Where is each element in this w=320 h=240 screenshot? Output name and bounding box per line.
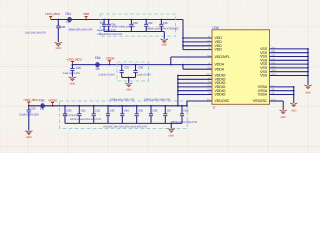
- svg-text:100nF,±10%,X5R,X7R: 100nF,±10%,X5R,X7R: [144, 97, 170, 101]
- svg-text:C42: C42: [95, 109, 100, 113]
- value label C37: [99, 74, 116, 77]
- wire VDDIO pin stub y94.5: [178, 94, 212, 96]
- svg-text:PlaceAtP5%-50%,X7R: PlaceAtP5%-50%,X7R: [98, 33, 123, 36]
- svg-text:C31: C31: [100, 21, 105, 25]
- svg-text:C47: C47: [167, 109, 172, 113]
- svg-text:GND: GND: [162, 44, 168, 47]
- capacitor C42: [92, 105, 101, 124]
- ground under box2: [125, 83, 132, 91]
- svg-text:±A½D5-50%,X7R: ±A½D5-50%,X7R: [97, 29, 116, 32]
- svg-text:GND: GND: [169, 134, 175, 137]
- ground under box3: [168, 129, 175, 138]
- wire VDDIO pin stub y79.3: [178, 78, 212, 80]
- wire VDDIO pin stub y90.7: [178, 90, 212, 92]
- svg-text:VSSA: VSSA: [258, 93, 268, 97]
- capacitor C31: [100, 19, 106, 32]
- svg-text:100nF,±10%,X5R,X7R: 100nF,±10%,X5R,X7R: [171, 120, 197, 124]
- wire bottom bus row3 caps: [65, 123, 182, 125]
- svg-text:100nF,±10%,16V,X7R,0402: 100nF,±10%,16V,X7R,0402: [146, 27, 178, 31]
- pin VDDIO J4 (left): [208, 92, 226, 97]
- svg-text:FB: FB: [66, 20, 70, 24]
- pin VDDIO C12 (left): [206, 73, 225, 78]
- pin VDD J1 (left): [208, 47, 222, 52]
- pin VSS E11 (right): [260, 62, 276, 67]
- capacitor C36: [70, 65, 81, 77]
- svg-text:10nF,20%,16V,X7R: 10nF,20%,16V,X7R: [25, 31, 46, 34]
- pin VDDA M1 (left): [207, 67, 224, 72]
- svg-text:C36: C36: [76, 66, 81, 70]
- capacitor C47: [163, 105, 172, 124]
- capacitor C30: [56, 20, 65, 43]
- ground under C36: [69, 77, 76, 86]
- svg-text:GND: GND: [56, 47, 62, 50]
- wire VDDIO pin stub y75.5: [178, 75, 212, 77]
- value label 100nF,±40%,16V,X7R (box1 mid): [112, 25, 136, 28]
- pin VSS F10 (right): [260, 65, 276, 70]
- capacitor C39: [27, 106, 36, 131]
- wire VDD feed vertical: [182, 20, 184, 50]
- pin VDDIO F3 (left): [208, 77, 226, 82]
- svg-text:VDD: VDD: [215, 48, 223, 52]
- svg-text:3.3uF,±P,25V: 3.3uF,±P,25V: [137, 74, 151, 77]
- wire VDDA pin2 step: [183, 65, 212, 70]
- svg-text:C43: C43: [109, 109, 114, 113]
- ferrite bead FB1: [66, 12, 72, 24]
- decoupling group box 2: [117, 62, 149, 81]
- svg-text:C37: C37: [124, 66, 129, 70]
- pin VSSA N1 (right): [258, 92, 275, 97]
- svg-text:±0%,X5C,0R±-50½,X7R,±10%,X5R,X: ±0%,X5C,0R±-50½,X7R,±10%,X5R,X7R: [103, 126, 147, 129]
- svg-text:C48: C48: [183, 109, 188, 113]
- note PlaceAt row3: [70, 118, 101, 121]
- svg-text:3.3uF,±10%,25V: 3.3uF,±10%,25V: [63, 72, 81, 75]
- designator C35: [163, 21, 168, 25]
- svg-text:GND: GND: [26, 136, 32, 139]
- value label C31 100nF,20%,16V,X7R: [68, 27, 92, 31]
- part label IC: [213, 106, 216, 110]
- value label 100nF,±10%,16V,X7R (C35): [146, 27, 178, 31]
- svg-text:GND: GND: [281, 116, 287, 119]
- svg-text:FB: FB: [96, 67, 100, 71]
- svg-text:U30: U30: [212, 26, 218, 30]
- pin VDD H1 (left): [208, 43, 223, 48]
- power port +3V3_MCU (row2): [67, 58, 82, 65]
- designator U30: [212, 26, 218, 30]
- svg-text:100nF,20%,16V,X7R: 100nF,20%,16V,X7R: [68, 27, 92, 31]
- ground under C39: [25, 131, 32, 139]
- capacitor C37: [120, 64, 130, 78]
- value label C38: [137, 74, 151, 77]
- wire VDDOSC branch: [186, 101, 212, 107]
- ground VSSA: [290, 103, 297, 112]
- svg-text:100nF,±10%,X5R,X7R: 100nF,±10%,X5R,X7R: [109, 104, 135, 108]
- wire VDDIO pin stub y86.9: [178, 86, 212, 88]
- svg-text:C35: C35: [163, 21, 168, 25]
- pin VDDA L2 (left): [208, 62, 225, 67]
- svg-text:C46: C46: [152, 109, 157, 113]
- svg-text:FB2: FB2: [39, 98, 45, 102]
- svg-text:FB3: FB3: [95, 56, 101, 60]
- wire VDD pin stub y49.6: [183, 49, 212, 51]
- value label row3 right: [171, 120, 197, 124]
- svg-text:VDDA: VDDA: [215, 67, 225, 71]
- svg-text:100nF,±Pa,10,2R±-50%,X7R: 100nF,±Pa,10,2R±-50%,X7R: [70, 118, 101, 121]
- svg-text:FB1: FB1: [66, 12, 72, 16]
- svg-text:3.3uF,±10%,25V: 3.3uF,±10%,25V: [19, 112, 39, 116]
- svg-text:1.36uF,±P,2%V: 1.36uF,±P,2%V: [99, 74, 116, 77]
- pin VSS H10 (right): [260, 73, 276, 78]
- pin VSS C11 (right): [260, 54, 276, 59]
- note A-D5 row1: [97, 29, 116, 32]
- wire VSS bus: [270, 48, 309, 85]
- decoupling group box 3: [60, 101, 188, 128]
- value label C39 3.3uF: [19, 112, 39, 116]
- wire bottom bus row2 caps: [122, 77, 136, 83]
- pin VDDIO G4 (left): [208, 84, 226, 89]
- capacitor C48: [180, 105, 189, 124]
- value label C30 10nF,20%,16V,X7R: [25, 31, 46, 34]
- wire VDD pin stub y41.9: [183, 41, 212, 43]
- svg-text:IC: IC: [213, 106, 216, 110]
- pin VDD G1 (left): [208, 39, 223, 44]
- value label row3 above box: [144, 97, 170, 101]
- svg-text:3.3uF,±Pa,25V: 3.3uF,±Pa,25V: [63, 114, 79, 117]
- capacitor C34: [111, 19, 134, 32]
- pin VSSA M2 (right): [258, 88, 276, 93]
- svg-text:GND: GND: [305, 92, 311, 95]
- svg-text:C38: C38: [138, 66, 143, 70]
- svg-text:GND: GND: [70, 83, 76, 86]
- wire VDDIO pin stub y83.1: [178, 82, 212, 84]
- svg-text:100nF,±Pa,X5R,X7R: 100nF,±Pa,X5R,X7R: [110, 97, 134, 101]
- capacitor C40: [63, 105, 72, 124]
- svg-text:VDDIO: VDDIO: [48, 98, 58, 102]
- svg-text:FB: FB: [40, 107, 44, 111]
- pin VDDIO F4 (left): [208, 81, 226, 86]
- capacitor C41: [77, 105, 86, 124]
- pin VSS G10 (right): [260, 69, 276, 74]
- svg-text:VDDA: VDDA: [106, 57, 115, 61]
- wire VDDIO rail: [28, 105, 187, 107]
- wire bottom bus row1 caps: [104, 31, 164, 33]
- ground under C30: [55, 42, 62, 50]
- pin VSSOSC E12 (right): [253, 99, 277, 104]
- svg-text:C32: C32: [148, 21, 153, 25]
- capacitor C33: [133, 19, 149, 32]
- pin VSS A12 (right): [260, 46, 276, 51]
- wire VDD pin stub y45.8: [183, 45, 212, 47]
- svg-text:VDDOSC: VDDOSC: [215, 99, 230, 103]
- svg-text:VDD3VFL: VDD3VFL: [215, 55, 231, 59]
- svg-text:GND: GND: [291, 109, 297, 112]
- wire VDDA rail: [72, 64, 184, 66]
- pin VDDIO H4 (left): [208, 88, 226, 93]
- pin VDD F1 (left): [208, 36, 222, 41]
- capacitor C44: [120, 105, 129, 124]
- ground under box1: [161, 39, 168, 47]
- svg-text:VSS: VSS: [260, 74, 268, 78]
- svg-text:C41: C41: [81, 109, 86, 113]
- value label row3 under rail: [109, 104, 135, 108]
- ferrite bead FB3: [95, 56, 101, 71]
- power port VDDIO: [48, 98, 58, 105]
- svg-text:VDD: VDD: [83, 12, 90, 16]
- ground VSSOSC: [280, 110, 287, 119]
- pin VSS B11 (right): [260, 50, 276, 55]
- decoupling group box 1: [100, 14, 175, 36]
- svg-text:C45: C45: [138, 109, 143, 113]
- pin VSS D11 (right): [260, 58, 276, 63]
- wire VSSOSC: [270, 101, 284, 110]
- wire VDD pin stub y38.0: [183, 37, 212, 39]
- note PlaceAt row1: [98, 33, 123, 36]
- svg-text:+3V3_MCU: +3V3_MCU: [23, 98, 38, 102]
- pin VSSA L1 (right): [258, 84, 275, 89]
- value label C36 3.3uF: [63, 72, 81, 75]
- svg-text:C44: C44: [124, 109, 129, 113]
- svg-text:100nF,±40%,16V,X7R: 100nF,±40%,16V,X7R: [112, 25, 136, 28]
- value label row3 mid: [63, 114, 79, 117]
- wire VDDIO feed vertical: [177, 75, 179, 107]
- wire VDD3VFL branch: [171, 57, 212, 65]
- ferrite bead FB2: [39, 98, 45, 111]
- op IC U30 body: [212, 30, 270, 105]
- svg-text:+3V3_MCU: +3V3_MCU: [67, 58, 82, 62]
- power port VDD: [83, 12, 90, 19]
- pin VDD3VFL M3 (left): [207, 55, 230, 60]
- wire VSSA bus: [270, 86, 295, 103]
- wire gnd drop row3: [170, 123, 172, 128]
- capacitor C38: [133, 64, 143, 78]
- value label row3 above box left: [110, 97, 134, 101]
- capacitor C32: [148, 19, 164, 32]
- power port VDDA: [106, 57, 115, 65]
- wire gnd drop row1: [163, 32, 165, 39]
- power port +3V3_MCU (row3): [23, 98, 38, 106]
- capacitor C45: [135, 105, 144, 124]
- svg-text:VSSOSC: VSSOSC: [253, 99, 268, 103]
- svg-text:VDDA: VDDA: [215, 63, 225, 67]
- svg-text:GND: GND: [126, 88, 132, 91]
- capacitor C43: [106, 105, 115, 124]
- wire VDD rail row1: [51, 19, 183, 21]
- svg-text:+3V3_MCU: +3V3_MCU: [45, 12, 60, 16]
- svg-text:C39: C39: [31, 107, 36, 111]
- svg-text:C30: C30: [60, 25, 65, 29]
- power port +3V3_MCU (row1): [45, 12, 60, 19]
- capacitor C34b: [107, 19, 111, 32]
- wire VDDA pin1: [183, 64, 212, 66]
- ground VSS bus: [304, 85, 311, 95]
- pin VDDOSC F11 (left): [207, 99, 230, 104]
- capacitor C46: [149, 105, 158, 124]
- svg-text:VDDIO: VDDIO: [215, 93, 226, 97]
- note values row3 below wire: [103, 126, 147, 129]
- svg-text:C33: C33: [133, 21, 138, 25]
- svg-text:C40: C40: [66, 109, 71, 113]
